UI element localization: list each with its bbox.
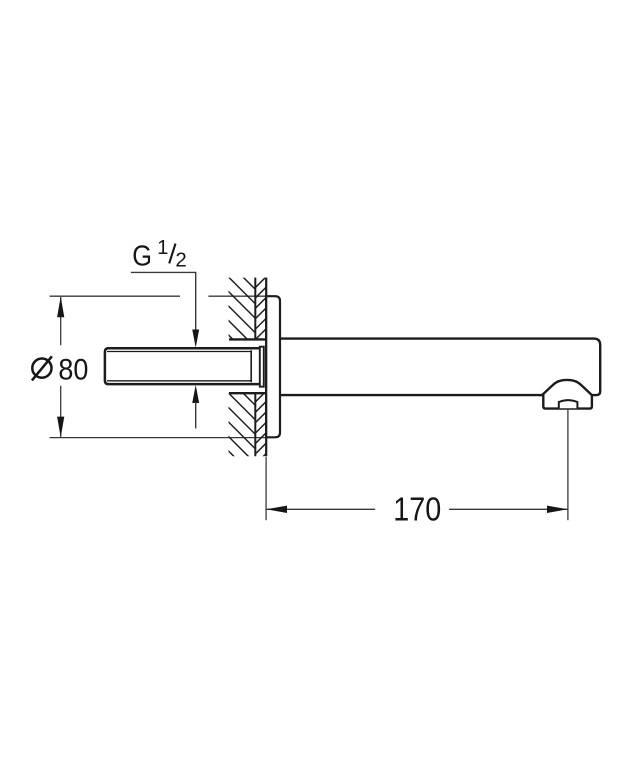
arrow 170 left <box>266 506 287 513</box>
extension line 170 left <box>265 457 267 520</box>
svg-text:G: G <box>132 240 152 272</box>
wall face line inner <box>265 278 267 457</box>
dimension line 170 <box>267 508 568 510</box>
arrow leader down <box>192 330 199 348</box>
svg-text:1: 1 <box>157 237 168 259</box>
wall hole bottom edge <box>229 392 267 394</box>
svg-text:170: 170 <box>393 490 441 527</box>
washer at wall <box>260 347 264 387</box>
svg-text:2: 2 <box>175 249 186 272</box>
arrow 170 right <box>547 506 568 513</box>
wall hatch fine lines <box>250 250 272 470</box>
extension line top (O80) <box>50 295 267 297</box>
diameter symbol O <box>32 356 52 380</box>
wall hatch coarse lines <box>220 254 262 485</box>
flange escutcheon O80 <box>266 296 280 437</box>
wall face line outer <box>254 278 256 457</box>
extension line bottom (O80) <box>50 437 267 439</box>
aerator <box>559 400 578 408</box>
arrow O80 up <box>57 296 64 317</box>
label G 1/2 thread size <box>132 237 187 273</box>
spout outlet dome <box>542 380 592 409</box>
thread end line <box>250 350 252 382</box>
thread root lines <box>107 352 251 381</box>
svg-text:80: 80 <box>58 354 88 387</box>
wall hole top edge <box>229 338 267 340</box>
leader tail below pipe <box>195 402 197 428</box>
dimension line O80 vertical <box>60 297 62 437</box>
spout body <box>279 339 600 396</box>
leader line G1/2 <box>131 272 196 331</box>
extension line 170 right <box>567 409 569 520</box>
arrow O80 down <box>57 417 64 438</box>
pipe thread G1/2 tail <box>105 348 261 384</box>
arrow G1/2 up <box>192 385 199 403</box>
